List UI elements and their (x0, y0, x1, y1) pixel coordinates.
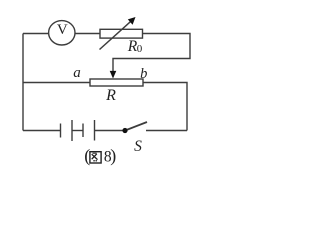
svg-text:R: R (105, 87, 116, 104)
svg-text:0: 0 (137, 43, 143, 55)
svg-text:V: V (57, 22, 68, 38)
svg-text:): ) (110, 146, 116, 167)
svg-text:b: b (140, 66, 147, 82)
svg-text:a: a (73, 65, 81, 81)
svg-text:S: S (134, 138, 142, 155)
